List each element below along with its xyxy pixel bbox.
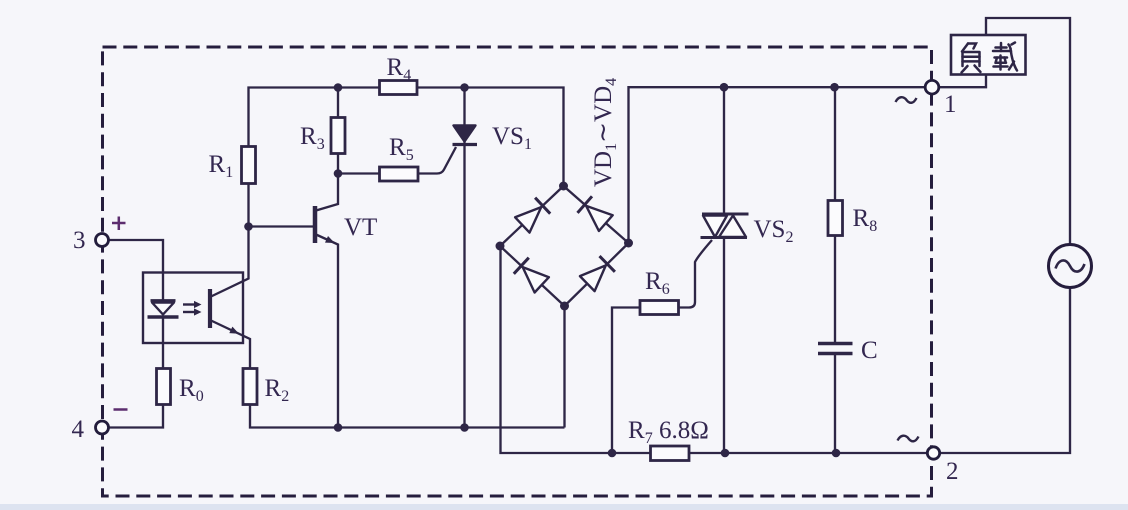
svg-text:1: 1: [944, 91, 957, 118]
svg-text:4: 4: [72, 416, 85, 443]
svg-text:VT: VT: [344, 214, 377, 241]
svg-text:2: 2: [946, 458, 959, 485]
svg-text:3: 3: [73, 227, 86, 254]
svg-text:VD1∼VD4: VD1∼VD4: [590, 78, 620, 187]
svg-text:C: C: [861, 337, 878, 364]
svg-text:R7 6.8Ω: R7 6.8Ω: [628, 417, 709, 447]
